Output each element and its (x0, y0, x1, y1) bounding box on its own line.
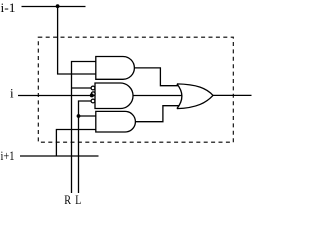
wire OR output (213, 94, 252, 96)
wire A3 output to OR bottom input (135, 106, 179, 122)
bubble on A2 middle input (91, 92, 95, 96)
wire i input line (18, 95, 91, 97)
wire A2 output to OR middle input (133, 95, 182, 97)
wire i+1 input line (20, 155, 99, 157)
wire L bus vertical and AND2 bottom input (79, 101, 92, 193)
and-gate A1 (96, 57, 135, 80)
svg-text:i-1: i-1 (1, 0, 16, 15)
bubble on A2 bottom input (91, 99, 95, 103)
wire i-1 drop to AND1 lower input (58, 7, 96, 75)
svg-text:i+1: i+1 (1, 148, 15, 163)
node junction on i-1 line (56, 4, 60, 8)
wire R to AND2 top input (72, 87, 92, 89)
or-gate O1 (177, 84, 213, 109)
and-gate A3 (96, 111, 136, 132)
wire R bus vertical and AND1 top input (72, 62, 96, 194)
svg-text:i: i (10, 85, 14, 100)
dashed module boundary (38, 37, 233, 142)
node junction on L bus (77, 114, 81, 118)
bubble on A2 top input (91, 86, 95, 90)
svg-text:L: L (75, 192, 81, 207)
svg-text:R: R (64, 192, 71, 207)
and-gate A2 with inverted inputs (95, 83, 133, 109)
wire i+1 rise to AND3 lower input (56, 130, 95, 157)
wire i-1 input line (22, 6, 86, 8)
wire A1 output to OR top input (134, 68, 179, 86)
wire L to AND3 top input (79, 115, 96, 117)
node junction at AND2 middle input (90, 93, 94, 97)
